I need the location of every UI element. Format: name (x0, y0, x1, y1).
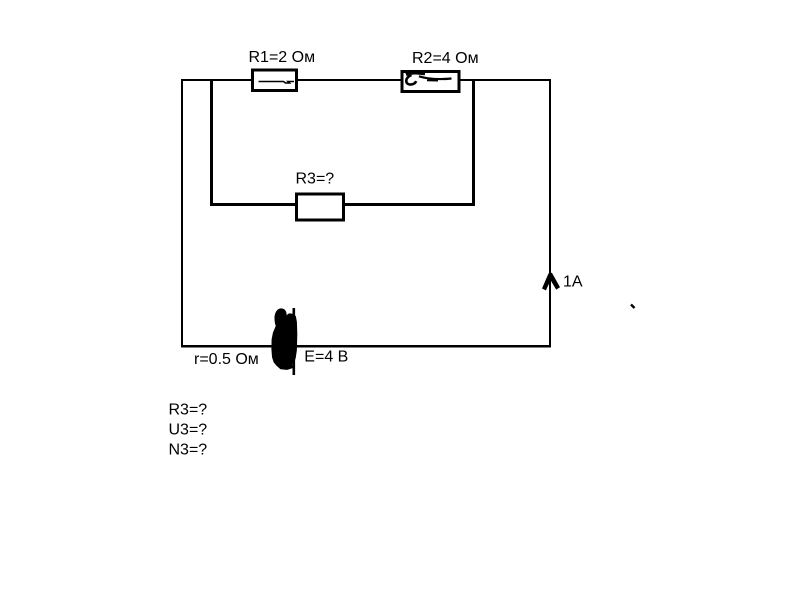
svg-text:R1=2 Ом: R1=2 Ом (249, 49, 316, 66)
wire squiggle inside R1 (259, 82, 295, 84)
svg-text:R3=?: R3=? (169, 402, 208, 419)
battery cell E (scribbled plate) (272, 309, 297, 369)
resistor R1 (253, 70, 297, 91)
svg-text:r=0.5 Ом: r=0.5 Ом (194, 351, 259, 368)
resistor R2 (402, 72, 459, 92)
wire outer loop top (181, 79, 551, 81)
wire outer loop bottom (181, 345, 551, 348)
svg-text:R3=?: R3=? (296, 171, 335, 188)
battery long plate (292, 308, 295, 375)
wire outer loop right vertical (549, 79, 551, 347)
svg-text:N3=?: N3=? (169, 442, 208, 459)
svg-text:E=4 В: E=4 В (304, 349, 348, 366)
svg-text:R2=4 Ом: R2=4 Ом (412, 50, 479, 67)
current arrow 1A (542, 273, 560, 291)
wire outer loop left vertical (181, 79, 183, 347)
wire inner-right vertical (below R2 to R3 branch) (472, 80, 475, 206)
scribble inside R2 (406, 73, 425, 75)
wire inner-left vertical (node A to R3 branch) (210, 79, 213, 206)
svg-text:1A: 1A (563, 274, 583, 291)
stray tick mark (631, 305, 635, 309)
wire R3 branch horizontal (210, 203, 475, 206)
resistor R3 (297, 194, 344, 220)
svg-text:U3=?: U3=? (169, 422, 208, 439)
